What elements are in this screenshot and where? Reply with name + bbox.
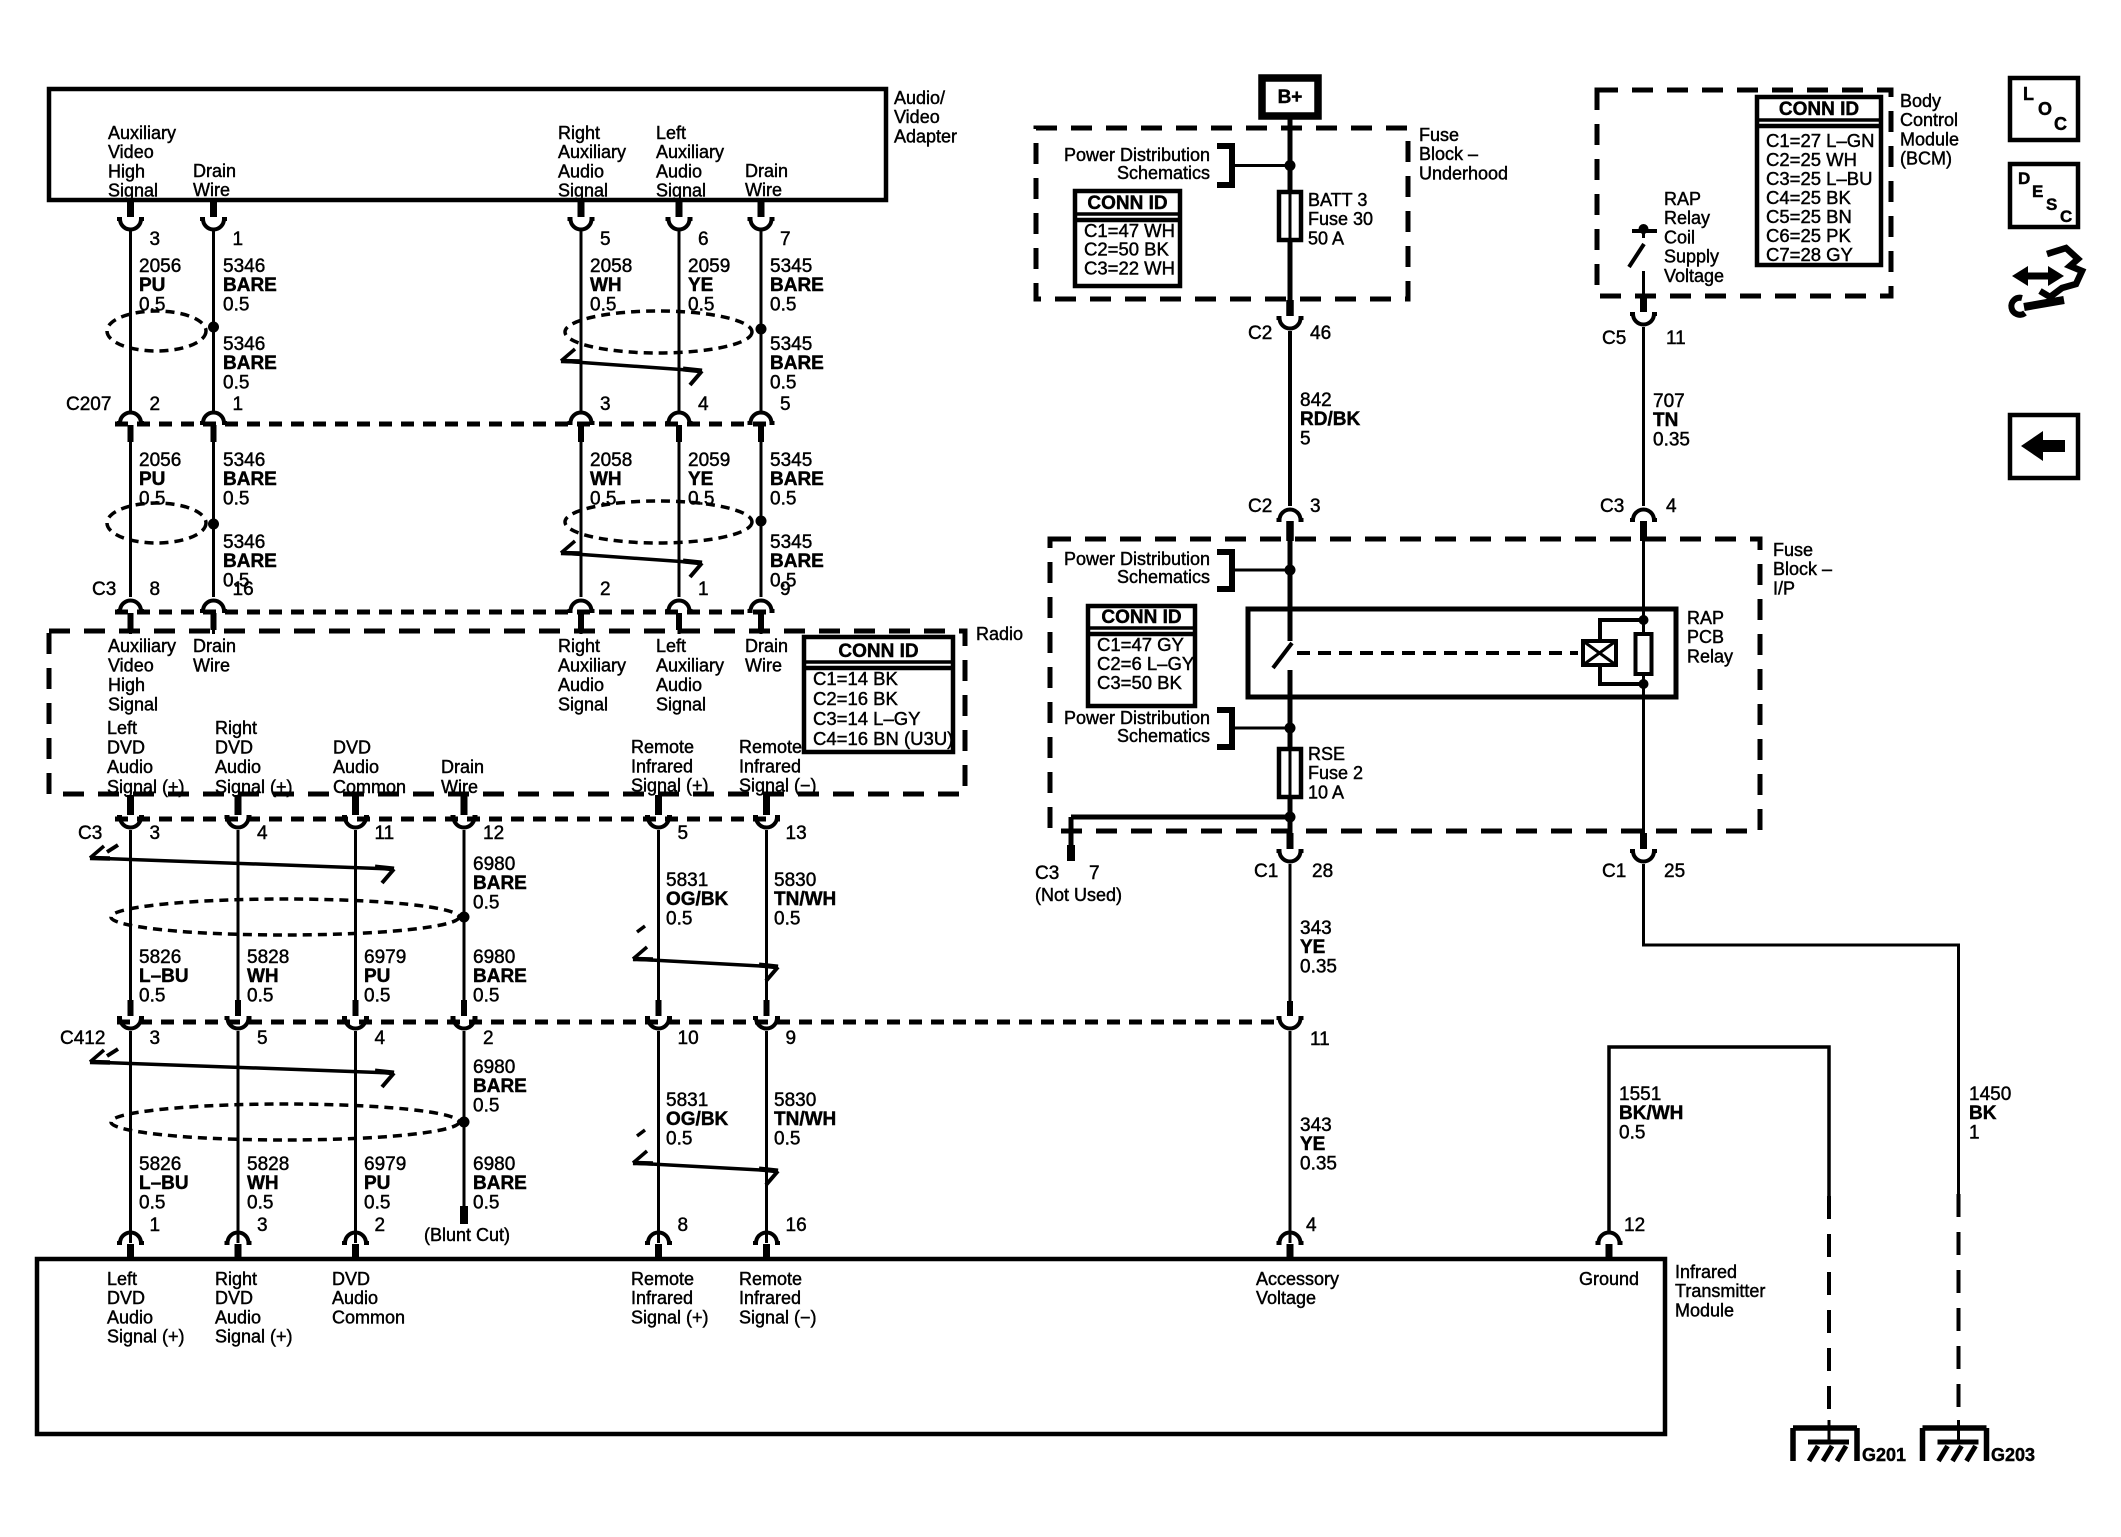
- svg-text:BARE: BARE: [223, 353, 277, 374]
- connector C412 pin 9: [764, 1000, 770, 1016]
- svg-text:0.35: 0.35: [1300, 1153, 1337, 1174]
- svg-text:DVD: DVD: [332, 1269, 370, 1289]
- svg-text:13: 13: [786, 823, 807, 844]
- connector pin 2 at Infrared Transmitter Module: [342, 1233, 369, 1244]
- connector C3 pin 9: [748, 601, 775, 612]
- svg-text:CONN ID: CONN ID: [1087, 193, 1167, 214]
- connector C1 pin 28: [1287, 833, 1294, 849]
- svg-text:9: 9: [780, 579, 791, 600]
- svg-text:C1: C1: [1602, 861, 1626, 882]
- wire: [760, 629, 763, 634]
- svg-text:2: 2: [375, 1215, 386, 1236]
- svg-text:842: 842: [1300, 390, 1332, 411]
- svg-text:2: 2: [150, 394, 161, 415]
- svg-text:C2=16 BK: C2=16 BK: [813, 688, 899, 709]
- wire: [760, 231, 763, 411]
- svg-text:46: 46: [1310, 323, 1331, 344]
- svg-text:5828: 5828: [247, 1154, 289, 1175]
- svg-text:C1=27 L–GN: C1=27 L–GN: [1766, 130, 1875, 151]
- crossing symbol: [107, 845, 118, 852]
- ground G201: [1793, 1425, 1857, 1431]
- switch RAP relay coil supply: [1632, 229, 1657, 233]
- svg-text:0.35: 0.35: [1300, 956, 1337, 977]
- fuse BATT 3 Fuse 30 50 A: [1279, 192, 1301, 240]
- wire: [129, 442, 132, 597]
- wire 1551 BK/WH 0.5 routing: [1609, 1047, 1829, 1231]
- svg-text:DVD: DVD: [107, 1288, 145, 1308]
- svg-text:BARE: BARE: [223, 469, 277, 490]
- module box: Infrared Transmitter Module: [37, 1259, 1665, 1434]
- connector C3 pin 4: [1630, 510, 1657, 520]
- svg-text:C2: C2: [1248, 323, 1272, 344]
- svg-text:C6=25 PK: C6=25 PK: [1766, 225, 1852, 246]
- junction dot: [1285, 812, 1296, 823]
- inline connector C412 line: [117, 1020, 1283, 1025]
- svg-text:Infrared: Infrared: [631, 756, 693, 776]
- connector C3 pin 16: [200, 601, 227, 612]
- icon LOC box: [2010, 78, 2078, 140]
- crossing symbol: [637, 926, 645, 932]
- svg-text:Video: Video: [108, 142, 154, 162]
- connector pin 16 at Infrared Transmitter Module: [753, 1233, 780, 1244]
- svg-text:Left: Left: [107, 718, 137, 738]
- connector pin 7 at Audio/Video Adapter: [758, 200, 765, 217]
- svg-text:Auxiliary: Auxiliary: [558, 142, 626, 162]
- svg-text:DVD: DVD: [215, 1288, 253, 1308]
- junction dot: [1285, 723, 1296, 734]
- svg-text:Module: Module: [1900, 129, 1959, 149]
- svg-text:Power Distribution: Power Distribution: [1064, 708, 1210, 728]
- svg-text:11: 11: [1666, 328, 1686, 349]
- wire: [237, 1031, 240, 1243]
- svg-text:Signal: Signal: [558, 695, 608, 715]
- svg-text:5345: 5345: [770, 450, 812, 471]
- connector C5 pin 11: [1640, 297, 1647, 312]
- table CONN ID (Fuse Block - Underhood): [1075, 191, 1180, 286]
- svg-text:WH: WH: [590, 469, 622, 490]
- svg-text:Block –: Block –: [1419, 144, 1478, 164]
- junction dot on drain wire 5346: [208, 322, 219, 333]
- svg-text:BARE: BARE: [473, 873, 527, 894]
- svg-text:Common: Common: [332, 1307, 405, 1327]
- svg-text:2056: 2056: [139, 256, 181, 277]
- connector C412 pin 5: [235, 1000, 241, 1016]
- svg-text:0.35: 0.35: [1653, 429, 1690, 450]
- svg-text:C: C: [2060, 207, 2072, 226]
- svg-text:Audio: Audio: [107, 757, 153, 777]
- svg-text:2056: 2056: [139, 450, 181, 471]
- wire: [1288, 541, 1293, 609]
- connector pin 12 at Infrared Transmitter Module: [1596, 1233, 1623, 1244]
- svg-text:0.5: 0.5: [223, 488, 249, 509]
- svg-text:2058: 2058: [590, 256, 632, 277]
- svg-text:5: 5: [678, 823, 689, 844]
- svg-text:Drain: Drain: [193, 636, 236, 656]
- svg-text:Audio: Audio: [656, 675, 702, 695]
- twisted pair marker: [107, 311, 206, 351]
- wire: [580, 231, 583, 411]
- svg-text:(Blunt Cut): (Blunt Cut): [424, 1225, 510, 1245]
- svg-text:C207: C207: [66, 394, 111, 415]
- connector pin 3 at Infrared Transmitter Module: [225, 1233, 252, 1244]
- svg-text:Remote: Remote: [739, 737, 802, 757]
- module box: Fuse Block - Underhood (dashed): [1036, 128, 1408, 299]
- svg-text:CONN ID: CONN ID: [1779, 99, 1859, 120]
- twisted pair marker: [565, 501, 752, 543]
- junction dot on drain wire 6980: [459, 912, 470, 923]
- svg-text:BARE: BARE: [473, 966, 527, 987]
- svg-text:0.5: 0.5: [473, 1095, 499, 1116]
- connector C3 pin 8: [117, 601, 144, 612]
- svg-text:7: 7: [780, 229, 791, 250]
- svg-text:I/P: I/P: [1773, 578, 1795, 598]
- svg-text:BARE: BARE: [770, 275, 824, 296]
- svg-text:Audio/: Audio/: [894, 88, 945, 108]
- svg-text:6979: 6979: [364, 947, 406, 968]
- svg-text:PCB: PCB: [1687, 627, 1724, 647]
- connector C2 pin 3: [1277, 510, 1304, 520]
- svg-text:0.5: 0.5: [364, 1192, 390, 1213]
- svg-text:0.5: 0.5: [364, 985, 390, 1006]
- svg-text:0.5: 0.5: [770, 488, 796, 509]
- bracket: [1217, 146, 1232, 185]
- wire: [354, 1031, 357, 1243]
- svg-text:0.5: 0.5: [666, 908, 692, 929]
- wire 707 TN into relay: [1642, 541, 1645, 634]
- svg-text:Audio: Audio: [333, 757, 379, 777]
- svg-text:0.5: 0.5: [770, 294, 796, 315]
- connector C3 pin 5: [655, 795, 662, 815]
- svg-text:WH: WH: [590, 275, 622, 296]
- svg-text:DVD: DVD: [107, 738, 145, 758]
- svg-text:0.5: 0.5: [473, 892, 499, 913]
- svg-text:RD/BK: RD/BK: [1300, 409, 1360, 430]
- svg-text:Infrared: Infrared: [739, 756, 801, 776]
- svg-text:5826: 5826: [139, 947, 181, 968]
- svg-text:TN/WH: TN/WH: [774, 889, 836, 910]
- fuse RSE Fuse 2 10 A: [1279, 749, 1301, 797]
- relay coil symbol: [1583, 641, 1616, 665]
- crossing symbol: [637, 1130, 645, 1136]
- connector pin 4 at Infrared Transmitter Module: [1277, 1233, 1304, 1244]
- svg-text:BARE: BARE: [473, 1076, 527, 1097]
- svg-text:Supply: Supply: [1664, 247, 1719, 267]
- svg-text:C3=50 BK: C3=50 BK: [1097, 672, 1183, 693]
- connector C412 pin 10: [656, 1000, 662, 1016]
- svg-text:Coil: Coil: [1664, 227, 1695, 247]
- svg-text:6980: 6980: [473, 854, 515, 875]
- svg-text:28: 28: [1312, 861, 1333, 882]
- svg-text:TN/WH: TN/WH: [774, 1109, 836, 1130]
- svg-text:16: 16: [786, 1215, 807, 1236]
- svg-text:Fuse 30: Fuse 30: [1308, 209, 1373, 229]
- table CONN ID (BCM): [1757, 97, 1881, 265]
- svg-text:8: 8: [150, 579, 161, 600]
- wire: [678, 442, 681, 597]
- crossing symbol: [107, 1049, 118, 1056]
- wire to junction: [1235, 164, 1290, 167]
- svg-text:Module: Module: [1675, 1300, 1734, 1320]
- wire 707 TN 0.35: [1642, 327, 1645, 506]
- svg-text:12: 12: [483, 823, 504, 844]
- svg-text:WH: WH: [247, 1173, 279, 1194]
- svg-text:Remote: Remote: [739, 1269, 802, 1289]
- wire: [463, 830, 466, 1000]
- svg-text:CONN ID: CONN ID: [838, 641, 918, 662]
- svg-text:5: 5: [257, 1028, 268, 1049]
- svg-text:1: 1: [233, 229, 244, 250]
- svg-text:Infrared: Infrared: [739, 1288, 801, 1308]
- svg-text:Wire: Wire: [745, 656, 782, 676]
- icon DESC box: [2010, 164, 2078, 227]
- svg-text:0.5: 0.5: [473, 1192, 499, 1213]
- svg-text:Power Distribution: Power Distribution: [1064, 549, 1210, 569]
- svg-text:16: 16: [233, 579, 254, 600]
- connector pin 6 at Audio/Video Adapter: [676, 200, 683, 217]
- svg-text:High: High: [108, 161, 145, 181]
- bracket: [1217, 552, 1232, 589]
- wire: [129, 629, 132, 634]
- svg-text:YE: YE: [688, 275, 713, 296]
- connector C412 pin 4: [353, 1000, 359, 1016]
- svg-text:25: 25: [1664, 861, 1685, 882]
- svg-text:PU: PU: [139, 469, 165, 490]
- svg-text:C7=28 GY: C7=28 GY: [1766, 244, 1853, 265]
- svg-text:Fuse: Fuse: [1773, 540, 1813, 560]
- svg-text:5346: 5346: [223, 334, 265, 355]
- bracket: [1217, 710, 1232, 747]
- svg-text:0.5: 0.5: [590, 294, 616, 315]
- svg-text:BARE: BARE: [770, 469, 824, 490]
- svg-text:Signal (−): Signal (−): [739, 1307, 817, 1327]
- svg-text:343: 343: [1300, 1115, 1332, 1136]
- wire below fuse: [1288, 240, 1293, 300]
- svg-text:10 A: 10 A: [1308, 782, 1344, 802]
- relay switch: [1288, 609, 1293, 641]
- svg-text:C5: C5: [1602, 328, 1626, 349]
- svg-text:Relay: Relay: [1664, 208, 1710, 228]
- svg-text:(BCM): (BCM): [1900, 149, 1952, 169]
- icon arrow-wrench: [2026, 273, 2050, 280]
- svg-text:WH: WH: [247, 966, 279, 987]
- svg-text:1551: 1551: [1619, 1084, 1661, 1105]
- svg-text:Schematics: Schematics: [1117, 163, 1210, 183]
- twisted pair marker: [565, 311, 752, 353]
- svg-text:3: 3: [150, 823, 161, 844]
- svg-text:Radio: Radio: [976, 624, 1023, 644]
- svg-text:3: 3: [150, 1028, 161, 1049]
- connector C3 pin 4: [235, 795, 242, 815]
- wire: [765, 1031, 768, 1243]
- svg-text:7: 7: [1089, 863, 1100, 884]
- svg-text:Signal (+): Signal (+): [631, 776, 709, 796]
- svg-text:G201: G201: [1862, 1445, 1906, 1465]
- connector C3 pin 3: [127, 795, 134, 815]
- svg-text:5346: 5346: [223, 256, 265, 277]
- svg-text:L–BU: L–BU: [139, 1173, 189, 1194]
- wire below relay: [1288, 697, 1293, 749]
- svg-text:Signal: Signal: [656, 181, 706, 201]
- svg-text:C1=47 GY: C1=47 GY: [1097, 634, 1184, 655]
- svg-text:Auxiliary: Auxiliary: [108, 636, 176, 656]
- svg-text:Audio: Audio: [558, 675, 604, 695]
- svg-text:Wire: Wire: [441, 777, 478, 797]
- svg-text:Adapter: Adapter: [894, 126, 957, 146]
- svg-text:C2=6 L–GY: C2=6 L–GY: [1097, 653, 1194, 674]
- svg-text:5346: 5346: [223, 532, 265, 553]
- connector C3 pin 13: [763, 795, 770, 815]
- wire 343 YE 0.35: [1289, 864, 1292, 1001]
- inline connector C207 line: [115, 422, 775, 427]
- svg-text:B+: B+: [1278, 87, 1303, 108]
- connector C207 pin 2: [117, 413, 144, 424]
- svg-text:0.5: 0.5: [139, 985, 165, 1006]
- svg-text:C3: C3: [1600, 496, 1624, 517]
- wire to junction: [1235, 727, 1290, 730]
- connector C412 pin 2: [461, 1000, 467, 1016]
- svg-text:Fuse: Fuse: [1419, 125, 1459, 145]
- svg-text:Audio: Audio: [107, 1307, 153, 1327]
- svg-text:11: 11: [1310, 1029, 1330, 1050]
- svg-text:5345: 5345: [770, 256, 812, 277]
- junction dot: [1285, 565, 1296, 576]
- svg-text:Ground: Ground: [1579, 1269, 1639, 1289]
- wire 1450 BK 1 routing: [1644, 864, 1959, 1194]
- svg-text:2: 2: [600, 579, 611, 600]
- svg-text:Wire: Wire: [193, 656, 230, 676]
- wire: [354, 830, 357, 1000]
- svg-text:5830: 5830: [774, 870, 816, 891]
- svg-text:OG/BK: OG/BK: [666, 889, 729, 910]
- svg-text:2058: 2058: [590, 450, 632, 471]
- svg-text:Power Distribution: Power Distribution: [1064, 145, 1210, 165]
- relay RAP PCB Relay box: [1248, 609, 1676, 697]
- wire: [580, 629, 583, 634]
- svg-text:Drain: Drain: [441, 757, 484, 777]
- twisted pair marker: [111, 899, 459, 935]
- svg-text:Audio: Audio: [332, 1288, 378, 1308]
- svg-text:0.5: 0.5: [473, 985, 499, 1006]
- svg-text:Audio: Audio: [215, 1307, 261, 1327]
- wire: [129, 830, 132, 1000]
- svg-text:YE: YE: [1300, 1134, 1325, 1155]
- svg-text:YE: YE: [1300, 937, 1325, 958]
- connector C207 pin 4: [666, 413, 693, 423]
- svg-text:Signal (+): Signal (+): [107, 1327, 185, 1347]
- svg-text:Audio: Audio: [656, 161, 702, 181]
- svg-text:Fuse 2: Fuse 2: [1308, 763, 1363, 783]
- svg-text:Schematics: Schematics: [1117, 567, 1210, 587]
- svg-text:5: 5: [780, 394, 791, 415]
- junction dot: [1285, 160, 1296, 171]
- svg-text:TN: TN: [1653, 410, 1678, 431]
- svg-text:1450: 1450: [1969, 1084, 2011, 1105]
- svg-text:L: L: [2023, 84, 2034, 104]
- svg-text:C4=16 BN (U3U): C4=16 BN (U3U): [813, 728, 953, 749]
- svg-text:4: 4: [698, 394, 709, 415]
- svg-text:0.5: 0.5: [770, 372, 796, 393]
- svg-text:Video: Video: [894, 107, 940, 127]
- svg-text:3: 3: [600, 394, 611, 415]
- connector C3 pin 11: [352, 795, 359, 815]
- svg-text:0.5: 0.5: [139, 488, 165, 509]
- svg-text:High: High: [108, 675, 145, 695]
- svg-text:Auxiliary: Auxiliary: [656, 142, 724, 162]
- svg-text:BARE: BARE: [223, 551, 277, 572]
- svg-text:6979: 6979: [364, 1154, 406, 1175]
- svg-text:3: 3: [150, 229, 161, 250]
- svg-text:1: 1: [698, 579, 709, 600]
- svg-text:Wire: Wire: [193, 180, 230, 200]
- svg-text:Auxiliary: Auxiliary: [108, 123, 176, 143]
- svg-text:Signal (+): Signal (+): [215, 1327, 293, 1347]
- svg-text:D: D: [2018, 169, 2030, 188]
- connector pin 1 at Audio/Video Adapter: [210, 200, 217, 217]
- svg-text:C2=25 WH: C2=25 WH: [1766, 149, 1857, 170]
- svg-text:6980: 6980: [473, 947, 515, 968]
- svg-text:C3: C3: [92, 579, 116, 600]
- svg-text:Left: Left: [107, 1269, 137, 1289]
- svg-text:C: C: [2054, 114, 2067, 134]
- wire 842 RD/BK 5: [1288, 331, 1292, 506]
- wire: [765, 830, 768, 1000]
- svg-text:C1=14 BK: C1=14 BK: [813, 668, 899, 689]
- svg-text:Voltage: Voltage: [1256, 1288, 1316, 1308]
- svg-text:O: O: [2038, 99, 2052, 119]
- svg-text:50 A: 50 A: [1308, 228, 1344, 248]
- svg-text:Right: Right: [558, 123, 600, 143]
- svg-text:Control: Control: [1900, 110, 1958, 130]
- wire: [760, 442, 763, 597]
- svg-text:C1: C1: [1254, 861, 1278, 882]
- connector C207 pin 1: [200, 413, 227, 424]
- table CONN ID (Radio): [804, 637, 953, 752]
- svg-text:BARE: BARE: [473, 1173, 527, 1194]
- wire: [657, 830, 660, 1000]
- crossing symbol: [561, 541, 575, 553]
- wire below fuse: [1288, 797, 1293, 833]
- connector pin 8 at Infrared Transmitter Module: [645, 1233, 672, 1244]
- svg-text:S: S: [2046, 195, 2057, 214]
- svg-text:2059: 2059: [688, 256, 730, 277]
- wire: [678, 629, 681, 634]
- svg-text:Signal (+): Signal (+): [215, 777, 293, 797]
- relay actuation link (dashed): [1297, 651, 1578, 655]
- svg-text:Signal (+): Signal (+): [631, 1307, 709, 1327]
- svg-text:11: 11: [375, 823, 395, 844]
- svg-text:1: 1: [233, 394, 244, 415]
- svg-text:C4=25 BK: C4=25 BK: [1766, 187, 1852, 208]
- svg-text:C3: C3: [78, 823, 102, 844]
- svg-text:BARE: BARE: [770, 551, 824, 572]
- branch to C3 not used: [1071, 815, 1290, 820]
- svg-text:PU: PU: [364, 1173, 390, 1194]
- svg-text:5: 5: [600, 229, 611, 250]
- svg-text:Transmitter: Transmitter: [1675, 1281, 1765, 1301]
- svg-text:G203: G203: [1991, 1445, 2035, 1465]
- svg-text:BARE: BARE: [223, 275, 277, 296]
- svg-text:6980: 6980: [473, 1154, 515, 1175]
- svg-text:Infrared: Infrared: [1675, 1262, 1737, 1282]
- svg-text:Drain: Drain: [745, 161, 788, 181]
- svg-text:BATT 3: BATT 3: [1308, 190, 1367, 210]
- svg-text:Right: Right: [558, 636, 600, 656]
- svg-text:9: 9: [786, 1028, 797, 1049]
- svg-text:Left: Left: [656, 636, 686, 656]
- svg-text:Body: Body: [1900, 91, 1941, 111]
- svg-text:Drain: Drain: [745, 636, 788, 656]
- wire 343 YE 0.35: [1289, 1031, 1292, 1243]
